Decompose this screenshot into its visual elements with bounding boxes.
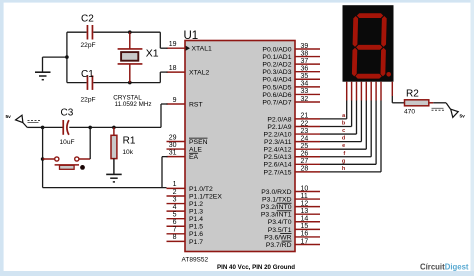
svg-text:7: 7 — [173, 227, 177, 234]
svg-text:P0.4/AD4: P0.4/AD4 — [262, 77, 291, 84]
svg-text:P1.7: P1.7 — [189, 239, 203, 246]
svg-text:P3.6/WR: P3.6/WR — [264, 234, 291, 241]
svg-text:P2.2/A10: P2.2/A10 — [264, 131, 292, 138]
svg-text:EA: EA — [189, 154, 199, 161]
svg-text:RST: RST — [189, 101, 203, 108]
svg-text:27: 27 — [301, 158, 309, 165]
svg-text:P0.1/AD1: P0.1/AD1 — [262, 54, 291, 61]
svg-text:21: 21 — [301, 113, 309, 120]
svg-text:P3.3/INT1: P3.3/INT1 — [261, 212, 292, 219]
svg-text:3: 3 — [173, 196, 177, 203]
svg-text:P2.1/A9: P2.1/A9 — [267, 124, 291, 131]
svg-text:32: 32 — [301, 96, 309, 103]
svg-text:12: 12 — [301, 200, 309, 207]
svg-text:1: 1 — [173, 181, 177, 188]
svg-text:P2.5/A13: P2.5/A13 — [264, 154, 292, 161]
svg-text:22pF: 22pF — [81, 96, 96, 103]
svg-text:10uF: 10uF — [60, 139, 75, 146]
svg-text:28: 28 — [301, 166, 309, 173]
svg-text:33: 33 — [301, 88, 309, 95]
svg-text:23: 23 — [301, 128, 309, 135]
svg-text:22: 22 — [301, 120, 309, 127]
svg-text:XTAL1: XTAL1 — [192, 46, 212, 53]
svg-text:CírcuitDigest: CírcuitDigest — [420, 263, 469, 272]
svg-text:18: 18 — [169, 65, 177, 72]
svg-text:P2.3/A11: P2.3/A11 — [264, 139, 292, 146]
svg-text:P0.2/AD2: P0.2/AD2 — [262, 62, 291, 69]
svg-text:26: 26 — [301, 151, 309, 158]
svg-text:PSEN: PSEN — [189, 139, 208, 146]
svg-text:17: 17 — [301, 238, 309, 245]
svg-text:P1.3: P1.3 — [189, 209, 203, 216]
svg-text:e: e — [342, 143, 345, 149]
svg-text:P3.2/INT0: P3.2/INT0 — [261, 204, 292, 211]
svg-text:15: 15 — [301, 223, 309, 230]
svg-text:36: 36 — [301, 66, 309, 73]
svg-text:b: b — [342, 120, 346, 126]
svg-text:4: 4 — [173, 204, 177, 211]
svg-text:P1.1/T2EX: P1.1/T2EX — [189, 193, 222, 200]
svg-text:P2.7/A15: P2.7/A15 — [264, 169, 292, 176]
svg-text:P1.2: P1.2 — [189, 201, 203, 208]
svg-text:2: 2 — [173, 189, 177, 196]
svg-text:14: 14 — [301, 216, 309, 223]
svg-text:c: c — [342, 128, 345, 134]
svg-text:d: d — [342, 136, 346, 142]
svg-text:P0.5/AD5: P0.5/AD5 — [262, 84, 291, 91]
svg-text:P1.0/T2: P1.0/T2 — [189, 186, 213, 193]
svg-text:11: 11 — [301, 193, 308, 200]
svg-text:P1.6: P1.6 — [189, 231, 203, 238]
svg-text:P2.0/A8: P2.0/A8 — [267, 116, 291, 123]
svg-text:5: 5 — [173, 211, 177, 218]
svg-text:5v: 5v — [460, 114, 466, 120]
svg-text:P0.3/AD3: P0.3/AD3 — [262, 69, 291, 76]
svg-text:P1.4: P1.4 — [189, 216, 203, 223]
svg-text:22pF: 22pF — [81, 42, 96, 49]
svg-text:ALE: ALE — [189, 146, 202, 153]
svg-text:P0.7/AD7: P0.7/AD7 — [262, 99, 291, 106]
svg-text:19: 19 — [169, 41, 177, 48]
svg-text:P2.4/A12: P2.4/A12 — [264, 147, 292, 154]
svg-text:30: 30 — [169, 142, 177, 149]
svg-text:f: f — [343, 151, 345, 157]
svg-text:AT89S52: AT89S52 — [182, 257, 209, 264]
svg-text:P0.0/AD0: P0.0/AD0 — [262, 46, 291, 53]
svg-text:35: 35 — [301, 73, 309, 80]
svg-text:10k: 10k — [122, 149, 133, 156]
svg-text:25: 25 — [301, 143, 309, 150]
svg-text:R1: R1 — [123, 136, 136, 147]
svg-text:C3: C3 — [61, 108, 74, 119]
svg-text:5v: 5v — [6, 114, 12, 120]
svg-text:P3.7/RD: P3.7/RD — [266, 242, 292, 249]
svg-text:11.0592 MHz: 11.0592 MHz — [115, 101, 152, 108]
svg-text:C1: C1 — [81, 69, 94, 80]
svg-text:P2.6/A14: P2.6/A14 — [264, 162, 292, 169]
svg-text:PIN 40 Vcc, PIN 20 Ground: PIN 40 Vcc, PIN 20 Ground — [217, 264, 295, 271]
svg-text:P3.0/RXD: P3.0/RXD — [261, 189, 291, 196]
svg-text:37: 37 — [301, 58, 309, 65]
svg-text:24: 24 — [301, 135, 309, 142]
svg-text:38: 38 — [301, 50, 309, 57]
svg-text:10: 10 — [301, 185, 309, 192]
svg-text:XTAL2: XTAL2 — [189, 70, 209, 77]
svg-text:29: 29 — [169, 134, 177, 141]
svg-text:P3.5/T1: P3.5/T1 — [268, 227, 292, 234]
svg-text:P1.5: P1.5 — [189, 224, 203, 231]
svg-text:6: 6 — [173, 219, 177, 226]
svg-text:13: 13 — [301, 208, 309, 215]
svg-text:U1: U1 — [184, 30, 199, 42]
svg-text:16: 16 — [301, 231, 309, 238]
svg-text:31: 31 — [169, 149, 177, 156]
svg-text:9: 9 — [173, 97, 177, 104]
svg-text:8: 8 — [173, 234, 177, 241]
svg-text:g: g — [342, 158, 346, 164]
svg-text:470: 470 — [404, 109, 415, 116]
svg-text:C2: C2 — [81, 14, 94, 25]
svg-text:h: h — [342, 166, 346, 172]
svg-text:34: 34 — [301, 81, 309, 88]
svg-text:R2: R2 — [406, 89, 419, 100]
svg-text:P0.6/AD6: P0.6/AD6 — [262, 92, 291, 99]
svg-text:39: 39 — [301, 43, 309, 50]
svg-text:P3.1/TXD: P3.1/TXD — [262, 196, 292, 203]
svg-text:X1: X1 — [146, 48, 159, 60]
svg-text:P3.4/T0: P3.4/T0 — [268, 219, 292, 226]
